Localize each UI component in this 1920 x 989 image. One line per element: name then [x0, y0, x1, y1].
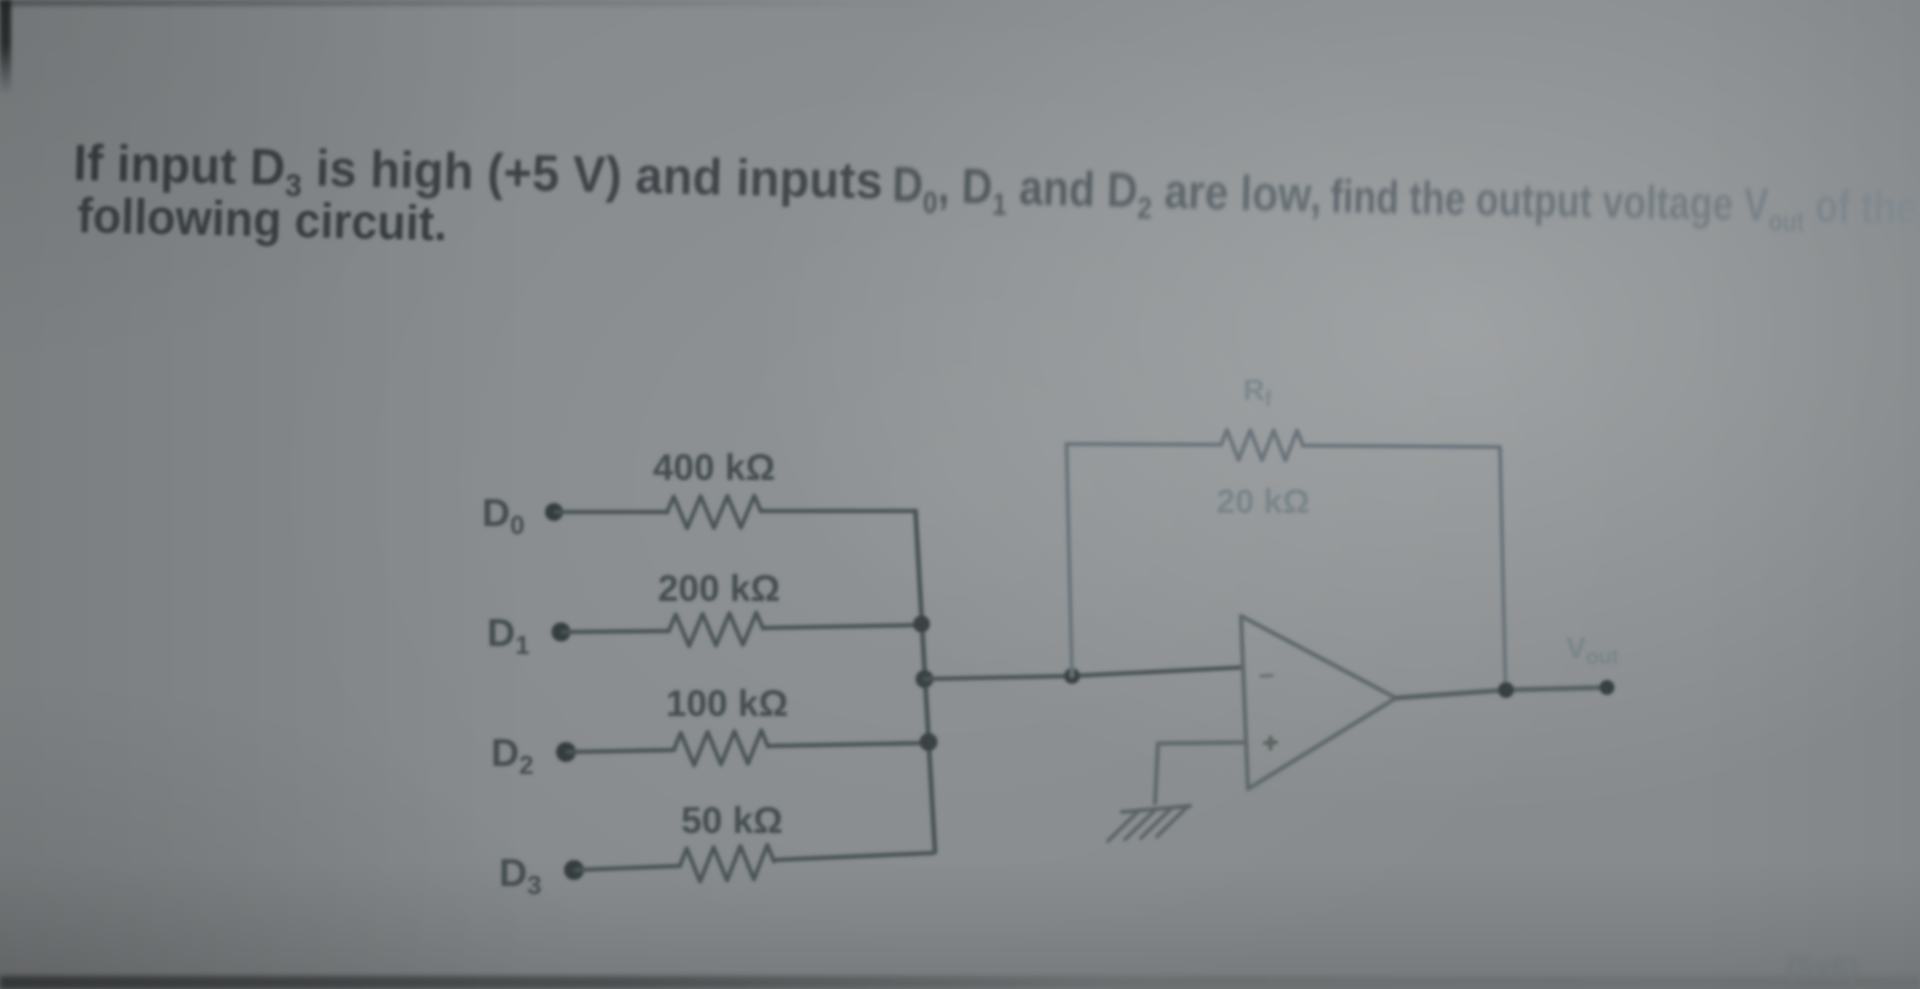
- resistor R_D0 400k: [667, 496, 761, 529]
- svg-text:D1: D1: [487, 612, 530, 660]
- op-amp minus sign: [1261, 674, 1272, 678]
- op-amp U1 triangle: [1241, 616, 1396, 789]
- junction dot output/feedback: [1498, 682, 1514, 698]
- wire feedback right vertical: [1500, 447, 1506, 688]
- node D1 terminal dot: [552, 623, 571, 642]
- wire D2 resistor to bus: [768, 743, 927, 746]
- problem statement line 1 (right part): [1330, 169, 1918, 242]
- wire D3 resistor to bus corner: [774, 853, 933, 860]
- svg-text:20 kΩ: 20 kΩ: [1216, 483, 1309, 521]
- node D2 terminal dot: [556, 742, 576, 762]
- resistor Rf 20k: [1221, 430, 1303, 461]
- ground symbol: [1122, 806, 1190, 812]
- faint page mark (5x6): [1786, 950, 1858, 986]
- problem statement line 2: [77, 188, 448, 252]
- junction dot bus/node: [916, 670, 934, 688]
- svg-text:400 kΩ: 400 kΩ: [653, 447, 775, 488]
- junction dot bus/D1: [913, 616, 930, 633]
- junction dot bus/D2: [920, 733, 938, 751]
- wire D3 to resistor: [576, 866, 680, 870]
- problem statement line 1 (left part): [72, 133, 897, 218]
- node D3 terminal dot: [564, 860, 584, 880]
- wire ground drop: [1155, 744, 1158, 804]
- node D0 terminal dot: [545, 503, 563, 521]
- svg-text:100 kΩ: 100 kΩ: [666, 683, 788, 724]
- resistor R_D1 200k: [669, 613, 763, 647]
- op-amp plus sign: [1265, 740, 1276, 745]
- wire D1 to resistor: [563, 631, 669, 632]
- output terminal dot: [1600, 680, 1615, 695]
- wire D2 to resistor: [568, 750, 674, 752]
- svg-text:D3: D3: [499, 852, 542, 900]
- svg-text:D2: D2: [491, 732, 534, 780]
- svg-text:50 kΩ: 50 kΩ: [681, 800, 783, 841]
- wire op-amp output: [1396, 688, 1607, 699]
- svg-text:Rf: Rf: [1243, 374, 1273, 411]
- wire feedback left vertical: [1067, 444, 1073, 676]
- problem statement line 1 (middle part): [891, 157, 1334, 231]
- junction dot feedback node: [1064, 668, 1080, 684]
- resistor R_D2 100k: [674, 730, 768, 765]
- wire feedback top right: [1303, 446, 1500, 447]
- wire summing bus vertical: [916, 511, 936, 852]
- resistor R_D3 50k: [680, 845, 774, 882]
- wire D1 resistor to bus: [763, 625, 922, 628]
- wire D0 resistor to bus: [761, 509, 916, 513]
- wire op-amp plus input: [1158, 743, 1243, 744]
- wire summing node to op-amp inverting input: [925, 668, 1241, 680]
- svg-text:D0: D0: [482, 492, 525, 540]
- svg-text:200 kΩ: 200 kΩ: [658, 568, 780, 609]
- wire D0 to resistor: [556, 510, 667, 514]
- svg-text:Vout: Vout: [1566, 632, 1619, 669]
- wire feedback top left: [1067, 442, 1222, 447]
